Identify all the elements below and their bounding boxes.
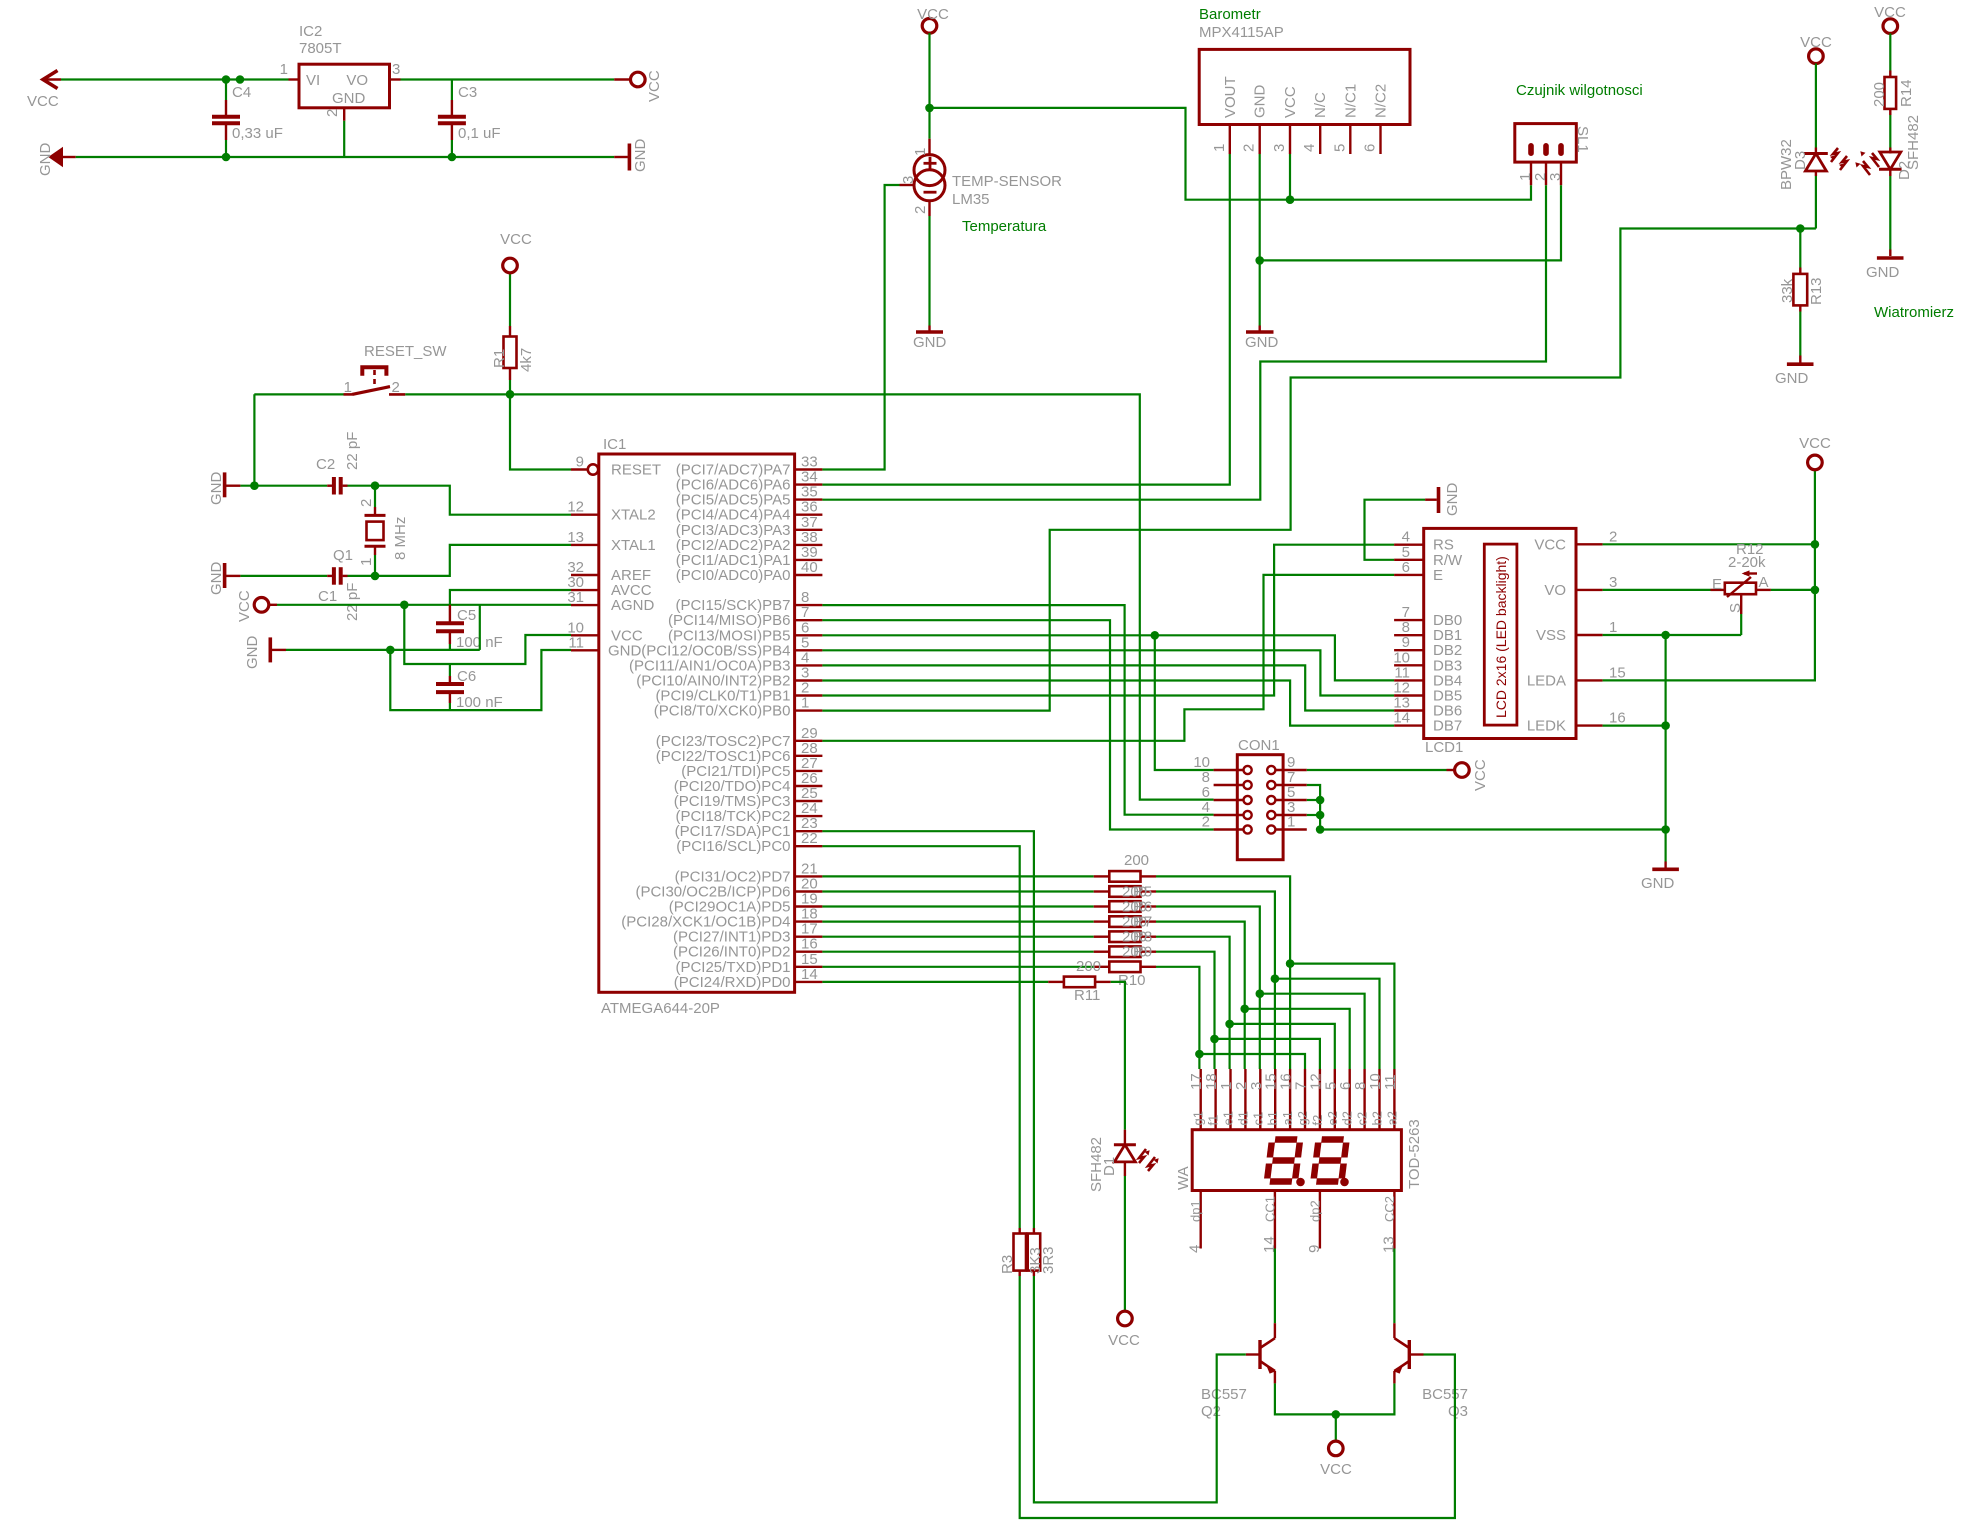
pin 24 PC2 (795, 815, 823, 817)
pin 7 (1267, 781, 1275, 789)
svg-text:LCD 2x16 (LED backlight): LCD 2x16 (LED backlight) (1493, 556, 1509, 718)
svg-text:Czujnik wilgotnosci: Czujnik wilgotnosci (1516, 82, 1643, 99)
wire D3 to R13 and PB0 (1815, 176, 1817, 229)
wire AGND down to GND row (479, 605, 481, 650)
wire VCC rail (61, 78, 289, 80)
pin 15 LEDA (1576, 679, 1603, 681)
pin 20 PD6 (795, 890, 823, 892)
svg-text:C3: C3 (458, 84, 477, 101)
pin 21 PD7 (795, 875, 823, 877)
wire GND rail (76, 156, 615, 158)
pin 9 DB2 (1394, 649, 1424, 651)
power pin VCC (CON1) (1455, 763, 1470, 778)
svg-text:3: 3 (1547, 173, 1564, 181)
junction (1240, 1005, 1249, 1014)
wire C1 row (240, 575, 327, 577)
resistor R4 3K3 (1033, 1228, 1035, 1234)
svg-text:22 pF: 22 pF (344, 583, 361, 621)
svg-text:(PCI8/T0/XCK0)PB0: (PCI8/T0/XCK0)PB0 (654, 703, 791, 720)
wire LM35 pin 3 to PA7 pin 33 (900, 184, 915, 186)
svg-text:31: 31 (567, 589, 584, 606)
svg-text:R11: R11 (1074, 987, 1100, 1004)
svg-text:1: 1 (1287, 814, 1295, 831)
wire to digit2 (1290, 964, 1394, 1069)
svg-text:2: 2 (324, 109, 341, 117)
pin 7 PB6 (795, 619, 823, 621)
pin 5 e2 (1334, 1069, 1336, 1130)
svg-text:VCC: VCC (646, 70, 663, 102)
pin 9 dp2 (1319, 1191, 1321, 1249)
pin 15 PD1 (795, 966, 823, 968)
svg-text:33k: 33k (1779, 278, 1796, 303)
pin 12 DB5 (1394, 694, 1424, 696)
power pin VCC (Q2/Q3) (1335, 1414, 1337, 1441)
svg-text:GND: GND (913, 334, 947, 351)
svg-text:D3: D3 (1792, 151, 1809, 170)
resistor R5 200 (822, 890, 1093, 892)
wire PB7 to CON1 pin4 (822, 605, 1213, 815)
junction (222, 153, 231, 162)
wire R6 to 7seg (1156, 907, 1260, 1070)
wire to digit2 (1215, 1039, 1320, 1069)
svg-text:E: E (1712, 576, 1722, 593)
resistor R14 200 (1889, 33, 1891, 70)
wire reset net (254, 393, 343, 395)
power pin VCC (circle, right) (614, 78, 630, 80)
wire LCD VCC pin2 (1603, 543, 1815, 545)
wire PB5 to CON1 pin10 (1155, 635, 1214, 770)
pin 10 b2 (1378, 1069, 1380, 1130)
pin 29 PC7 (795, 740, 823, 742)
resistor R6 200 (822, 905, 1093, 907)
svg-text:GND: GND (1245, 334, 1279, 351)
svg-text:3R3: 3R3 (1040, 1246, 1057, 1274)
ground net GND arrow (left) (50, 149, 62, 166)
svg-text:XTAL2: XTAL2 (611, 507, 656, 524)
pin 2 GND (1258, 125, 1260, 155)
wire PB3 to LCD DB6 (822, 665, 1394, 710)
pin 11 DB4 (1394, 679, 1424, 681)
pin 4 dp1 (1199, 1191, 1201, 1249)
pin 30 AVCC (571, 589, 599, 591)
svg-text:11: 11 (568, 634, 584, 651)
svg-text:VCC: VCC (1282, 86, 1299, 118)
wire GND vertical (LCD) (1664, 635, 1666, 862)
svg-text:13: 13 (567, 529, 584, 546)
wire 7805 GND (343, 121, 345, 157)
svg-text:Q2: Q2 (1201, 1403, 1221, 1420)
junction (371, 481, 380, 490)
svg-text:LM35: LM35 (952, 191, 990, 208)
junction (1796, 224, 1805, 233)
wire to digit2 (1245, 1009, 1350, 1069)
svg-text:e1: e1 (1221, 1111, 1236, 1125)
junction (1256, 989, 1265, 998)
wire GND row (286, 649, 480, 651)
wire C1 to crystal/XTAL1 (348, 575, 376, 577)
svg-text:1: 1 (1609, 619, 1617, 636)
pin 7 DB0 (1394, 619, 1424, 621)
svg-text:GND: GND (244, 636, 261, 670)
wire SL1 pin2 to PA5 pin 35 (822, 185, 1546, 500)
svg-text:CC2: CC2 (1382, 1196, 1397, 1222)
pin 1 PB0 (795, 709, 823, 711)
wire VO to VCC (401, 78, 615, 80)
svg-text:RESET: RESET (611, 462, 661, 479)
pin 31 AGND (571, 604, 599, 606)
power pin VCC above R1 (503, 258, 518, 273)
wire LM35 GND (928, 201, 930, 216)
wire PC7 to LCD E (822, 575, 1394, 741)
svg-text:C1: C1 (318, 588, 337, 605)
pin 14 PD0 (795, 981, 823, 983)
svg-text:(PCI0/ADC0)PA0: (PCI0/ADC0)PA0 (676, 567, 791, 584)
pin 6 E (1394, 574, 1424, 576)
junction (1255, 256, 1264, 265)
photodiode D3 BPW32 (1815, 64, 1817, 148)
svg-text:R13: R13 (1808, 277, 1825, 305)
svg-text:1: 1 (912, 148, 929, 156)
wire PB1 to LCD RS (822, 545, 1394, 696)
wire barometer VCC pin3 (1289, 154, 1291, 200)
svg-text:200: 200 (1124, 852, 1149, 869)
wire AVCC pin 30 (450, 590, 571, 605)
pin 2 (1244, 825, 1252, 833)
ground pin GND (C1) (223, 563, 227, 588)
svg-text:2: 2 (1202, 814, 1210, 831)
ground pin GND (C2) (223, 472, 227, 497)
pin 26 PC4 (795, 785, 823, 787)
power pin VCC (D1) (1118, 1311, 1133, 1326)
temp sensor IC LM35 TEMP-SENSOR (928, 108, 930, 139)
svg-text:c1: c1 (1250, 1112, 1265, 1126)
power pin VCC (LCD right) (1808, 455, 1823, 470)
svg-text:c2: c2 (1355, 1112, 1370, 1126)
wire CC2 to Q3 (1393, 1249, 1395, 1324)
pin 1 e1 (1229, 1069, 1231, 1130)
wire R8 to 7seg (1156, 937, 1230, 1069)
svg-text:VCC: VCC (1472, 759, 1489, 791)
pin 16 a1 (1289, 1069, 1291, 1130)
wire R9 to 7seg (1156, 952, 1215, 1069)
pin 6 (1244, 796, 1252, 804)
svg-text:2: 2 (1609, 528, 1617, 545)
wire to XTAL1 pin 13 (375, 545, 571, 576)
svg-text:16: 16 (1609, 710, 1626, 727)
pin 23 PC1 (795, 830, 823, 832)
pin 39 PA1 (795, 559, 823, 561)
capacitor C6 100nF (449, 664, 451, 676)
pin 9 (1267, 766, 1275, 774)
pin 13 XTAL1 (571, 544, 599, 546)
svg-text:1: 1 (280, 61, 288, 78)
svg-text:ATMEGA644-20P: ATMEGA644-20P (601, 1000, 720, 1017)
junction (222, 75, 231, 84)
svg-text:0,33 uF: 0,33 uF (232, 125, 283, 142)
svg-text:BC557: BC557 (1201, 1386, 1247, 1403)
svg-text:VCC: VCC (1320, 1461, 1352, 1478)
wire to digit2 (1230, 1024, 1335, 1069)
svg-text:XTAL1: XTAL1 (611, 537, 656, 554)
wire Q2 emitter to VCC (1275, 1383, 1336, 1414)
svg-text:BC557: BC557 (1422, 1386, 1468, 1403)
wire GND pin 11 route (390, 650, 571, 710)
pin 2 d1 (1244, 1069, 1246, 1130)
wire R11 to D1 (1111, 982, 1125, 1130)
svg-text:b2: b2 (1370, 1111, 1385, 1125)
pin 28 PC6 (795, 755, 823, 757)
wire to digit2 (1275, 979, 1380, 1069)
resistor R10 200 (822, 966, 1093, 968)
svg-text:a1: a1 (1280, 1111, 1295, 1125)
svg-text:IC2: IC2 (299, 23, 322, 40)
pin 2 PB1 (795, 694, 823, 696)
svg-text:Temperatura: Temperatura (962, 218, 1047, 235)
svg-text:d2: d2 (1340, 1111, 1355, 1125)
svg-text:LEDA: LEDA (1527, 672, 1566, 689)
resistor R3 3K3 (1019, 1228, 1021, 1234)
svg-text:4: 4 (1187, 1245, 1204, 1253)
svg-text:LEDK: LEDK (1527, 718, 1566, 735)
pin 3 VCC (1289, 125, 1291, 155)
svg-text:IC1: IC1 (603, 436, 626, 453)
pin 37 PA3 (795, 529, 823, 531)
pin 27 PC5 (795, 770, 823, 772)
junction (1661, 825, 1670, 834)
svg-text:f2: f2 (1310, 1115, 1325, 1126)
pin 3 PB2 (795, 679, 823, 681)
svg-text:C4: C4 (232, 84, 251, 101)
pin 1 VSS (1576, 634, 1603, 636)
wire PB4 to LCD DB5 (822, 650, 1394, 695)
7-seg digits 8.8. (1267, 1140, 1300, 1182)
ground pin GND (right) (614, 156, 628, 158)
svg-text:3: 3 (1609, 574, 1617, 591)
pin 1 VOUT (1229, 125, 1231, 155)
svg-text:0,1 uF: 0,1 uF (458, 125, 501, 142)
pin 10 DB3 (1394, 664, 1424, 666)
pin 4 RS (1394, 544, 1424, 546)
svg-text:GND: GND (208, 472, 225, 506)
svg-text:2: 2 (1241, 144, 1258, 152)
pin 1 (1267, 825, 1275, 833)
pin 16 LEDK (1576, 724, 1603, 726)
ground pin GND (D2) (1889, 250, 1891, 257)
wire R5 to 7seg (1156, 892, 1275, 1070)
pin 38 PA2 (795, 544, 823, 546)
wire PC1 to R4 (822, 831, 1034, 1228)
transistor Q3 BC557 (1393, 1323, 1395, 1338)
svg-text:9: 9 (576, 454, 584, 471)
svg-text:C2: C2 (316, 456, 335, 473)
crystal Q1 8MHz (374, 486, 376, 507)
pin 40 PA0 (795, 574, 823, 576)
wire R2 to 7seg (1156, 876, 1290, 1069)
pin 7 g2 (1304, 1069, 1306, 1130)
svg-text:b1: b1 (1265, 1111, 1280, 1125)
svg-text:GND: GND (1641, 875, 1675, 892)
svg-text:22 pF: 22 pF (344, 432, 361, 470)
pin 19 PD5 (795, 905, 823, 907)
pin 2 (1543, 143, 1549, 156)
wire LCD VO to R12 (1603, 589, 1711, 591)
pin 2 VCC (1576, 543, 1603, 545)
wire LCD VSS to GND/R12 wiper (1603, 634, 1742, 636)
power pin VCC (R14) (1883, 19, 1898, 34)
junction (250, 481, 259, 490)
svg-text:VO: VO (1544, 582, 1566, 599)
wire CON1 pin9 to VCC (1307, 769, 1447, 771)
ground pin GND (barometer) (1258, 326, 1260, 331)
junction (1271, 974, 1280, 983)
pin 11 GND (571, 649, 599, 651)
svg-text:LCD1: LCD1 (1425, 739, 1463, 756)
svg-text:14: 14 (801, 966, 818, 983)
wire GND rail to LCD GND (1320, 828, 1666, 830)
svg-text:A: A (1759, 574, 1769, 591)
wire to digit2 (1199, 1054, 1305, 1069)
svg-text:200: 200 (1871, 82, 1888, 107)
pin 3 (1558, 143, 1564, 156)
svg-text:N/C1: N/C1 (1342, 84, 1359, 118)
svg-text:SL1: SL1 (1574, 126, 1591, 153)
capacitor C3 (451, 80, 453, 101)
svg-text:15: 15 (1609, 664, 1626, 681)
junction (1151, 631, 1160, 640)
junction (1195, 1050, 1204, 1059)
junction (1316, 796, 1325, 805)
svg-text:GND: GND (1775, 370, 1809, 387)
svg-text:VCC: VCC (236, 590, 253, 622)
capacitor C5 100nF (449, 605, 451, 623)
pin 35 PA5 (795, 498, 823, 500)
ground pin GND (R13) (1799, 356, 1801, 363)
pin 4 N/C (1319, 125, 1321, 155)
svg-text:e2: e2 (1325, 1111, 1340, 1125)
pin 8 DB1 (1394, 634, 1424, 636)
svg-text:11: 11 (1382, 1074, 1399, 1090)
pin 3 VO (1576, 589, 1603, 591)
junction (1286, 959, 1295, 968)
svg-text:VCC: VCC (1108, 1332, 1140, 1349)
power pin VCC (D3) (1809, 49, 1824, 64)
pin 10 (1244, 766, 1252, 774)
pin 6 PB5 (795, 634, 823, 636)
svg-text:a2: a2 (1384, 1111, 1399, 1125)
pin 11 a2 (1393, 1069, 1395, 1130)
junction (1811, 540, 1820, 549)
wire C2 row (240, 485, 327, 487)
power pin VCC (left of AGND) (254, 598, 269, 613)
svg-text:Barometr: Barometr (1199, 6, 1261, 23)
resistor R2 200 (822, 875, 1093, 877)
svg-text:E: E (1433, 567, 1443, 584)
svg-text:4k7: 4k7 (518, 348, 535, 372)
svg-text:TOD-5263: TOD-5263 (1406, 1119, 1423, 1189)
pin 4 (1244, 811, 1252, 819)
svg-text:R3: R3 (999, 1255, 1016, 1274)
wire VCC row to AGND pin 31 (277, 604, 571, 606)
svg-text:C5: C5 (457, 607, 476, 624)
wire VCC to LM35/barometer/SL1 (930, 108, 1532, 200)
wire barometer VOUT to PA6 pin 34 (822, 154, 1229, 485)
pin 1 (1528, 143, 1534, 156)
pin 3 c1 (1259, 1069, 1261, 1130)
svg-text:AGND: AGND (611, 597, 655, 614)
pin 3 (1267, 811, 1275, 819)
pin 15 b1 (1274, 1069, 1276, 1130)
pin 12 XTAL2 (571, 514, 599, 516)
junction (barometer VCC) (1286, 195, 1295, 204)
svg-text:VOUT: VOUT (1222, 76, 1239, 118)
pin 5 (1267, 796, 1275, 804)
svg-text:TEMP-SENSOR: TEMP-SENSOR (952, 173, 1062, 190)
pin 18 PD4 (795, 920, 823, 922)
svg-text:3: 3 (392, 61, 400, 78)
svg-text:7805T: 7805T (299, 40, 342, 57)
svg-text:(PCI16/SCL)PC0: (PCI16/SCL)PC0 (676, 838, 790, 855)
svg-text:GND: GND (632, 139, 649, 173)
pin 16 PD2 (795, 951, 823, 953)
pin 6 d2 (1348, 1069, 1350, 1130)
junction (371, 572, 380, 581)
svg-text:2: 2 (912, 206, 929, 214)
pin 32 AREF (571, 574, 599, 576)
svg-text:14: 14 (1393, 710, 1410, 727)
svg-text:VI: VI (306, 72, 320, 89)
svg-text:3: 3 (1271, 144, 1288, 152)
svg-text:3: 3 (900, 176, 917, 184)
power net VCC arrow (top-left) (43, 71, 58, 89)
svg-text:GND: GND (37, 143, 54, 177)
svg-text:Wiatromierz: Wiatromierz (1874, 304, 1954, 321)
svg-text:40: 40 (801, 559, 818, 576)
capacitor C1 22pF (332, 567, 336, 585)
wire D2 to GND (1889, 176, 1891, 250)
pin 14 CC1 (1274, 1191, 1276, 1249)
LED D2 SFH482 (1889, 148, 1891, 154)
pin 8 PB7 (795, 604, 823, 606)
junction (925, 104, 934, 113)
pin 14 DB7 (1394, 724, 1424, 726)
svg-text:1: 1 (358, 558, 375, 566)
pin 10 VCC (571, 634, 599, 636)
wire PC0 to R3 (822, 846, 1019, 1228)
power pin VCC (LM35) (922, 19, 937, 34)
svg-text:GND: GND (332, 90, 366, 107)
svg-text:VCC: VCC (1534, 536, 1566, 553)
junction (1210, 1035, 1219, 1044)
resistor R1 4k7 (509, 380, 511, 394)
svg-text:N/C: N/C (1312, 92, 1329, 118)
svg-text:2: 2 (358, 499, 375, 507)
svg-text:C6: C6 (457, 668, 476, 685)
pin 5 PB4 (795, 649, 823, 651)
wire to reset line (253, 394, 255, 485)
svg-text:D1: D1 (1101, 1157, 1118, 1176)
svg-text:100 nF: 100 nF (456, 694, 503, 711)
LED D1 SFH482 (1124, 1130, 1126, 1144)
voltage regulator IC2 7805T (289, 78, 300, 80)
svg-text:WA: WA (1175, 1166, 1192, 1190)
junction (386, 646, 395, 655)
svg-text:200: 200 (1076, 958, 1101, 975)
svg-text:1: 1 (801, 695, 809, 712)
svg-text:9: 9 (1306, 1245, 1323, 1253)
junction (1332, 1410, 1341, 1419)
pin 5 R/W (1394, 559, 1424, 561)
svg-text:dp1: dp1 (1188, 1200, 1203, 1222)
